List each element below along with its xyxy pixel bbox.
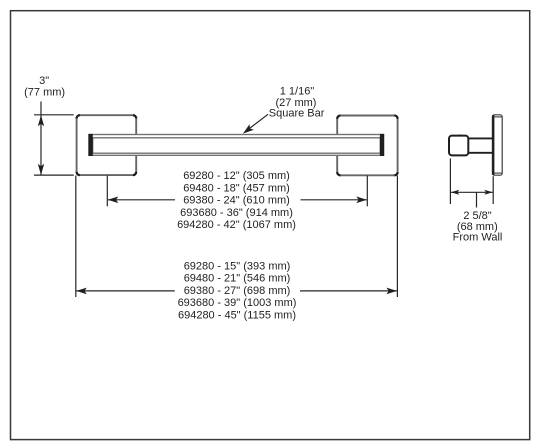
left mounting post: [77, 115, 137, 175]
right arrow: [356, 197, 367, 204]
square bar leader line: [248, 114, 268, 129]
svg-text:694280 - 42" (1067 mm): 694280 - 42" (1067 mm): [177, 219, 296, 231]
svg-text:69480 - 18" (457 mm): 69480 - 18" (457 mm): [183, 182, 290, 194]
left arrow: [76, 288, 87, 295]
side view: arm top line: [467, 137, 493, 139]
side view: bar end knob: [449, 136, 468, 156]
3 inch dimension line: [40, 102, 42, 176]
svg-text:694280 - 45" (1155 mm): 694280 - 45" (1155 mm): [178, 310, 296, 322]
towel bar right end cap: [380, 134, 384, 156]
center-to-center size table: [177, 170, 296, 231]
from-wall dimension line: [451, 191, 493, 193]
svg-text:693680 - 39" (1003 mm): 693680 - 39" (1003 mm): [178, 297, 297, 309]
overall size table: [178, 260, 297, 321]
from-wall dimension: left extension line: [449, 159, 451, 205]
left arrow: [451, 190, 459, 195]
from-wall label: [453, 210, 503, 244]
center-to-center dimension: left extension line: [106, 176, 108, 207]
overall dimension line left segment: [76, 290, 174, 292]
svg-text:69480 - 21" (546 mm): 69480 - 21" (546 mm): [184, 273, 291, 285]
from-wall leader stub: [476, 192, 478, 207]
svg-text:693680 - 36" (914 mm): 693680 - 36" (914 mm): [180, 207, 293, 219]
svg-text:1 1/16": 1 1/16": [280, 85, 315, 97]
side view: wall plate: [492, 115, 502, 175]
svg-text:69280 - 12" (305 mm): 69280 - 12" (305 mm): [183, 170, 290, 182]
center-to-center dimension line left segment: [108, 199, 175, 201]
right mounting post: [337, 116, 397, 176]
arrow down: [38, 164, 44, 175]
overall dimension: left extension line: [75, 176, 77, 298]
center-to-center dimension line right segment: [301, 199, 367, 201]
3 inch dimension: top extension line: [34, 114, 74, 116]
side view: arm bottom line: [467, 152, 493, 154]
overall dimension line right segment: [300, 290, 397, 292]
svg-text:From Wall: From Wall: [453, 232, 503, 244]
svg-text:69380 - 24" (610 mm): 69380 - 24" (610 mm): [183, 195, 290, 207]
towel bar outer profile: [89, 135, 384, 156]
towel bar inner face: [93, 138, 381, 153]
svg-text:69280 - 15" (393 mm): 69280 - 15" (393 mm): [184, 260, 291, 272]
svg-text:Square Bar: Square Bar: [269, 108, 325, 120]
3 inch dimension: bottom extension line: [34, 174, 74, 176]
center-to-center dimension: right extension line: [366, 176, 368, 207]
right arrow: [386, 288, 397, 295]
towel bar left end cap: [88, 134, 92, 156]
right arrow: [484, 190, 492, 195]
from-wall dimension: right extension line: [492, 176, 494, 204]
left arrow: [108, 197, 119, 204]
arrow up: [38, 115, 44, 126]
square bar leader arrowhead: [243, 124, 254, 134]
overall dimension: right extension line: [396, 176, 398, 298]
svg-text:69380 - 27" (698 mm): 69380 - 27" (698 mm): [184, 285, 291, 297]
knob top notch: [459, 135, 461, 137]
svg-text:(77 mm): (77 mm): [24, 87, 65, 99]
svg-text:3": 3": [39, 75, 49, 87]
